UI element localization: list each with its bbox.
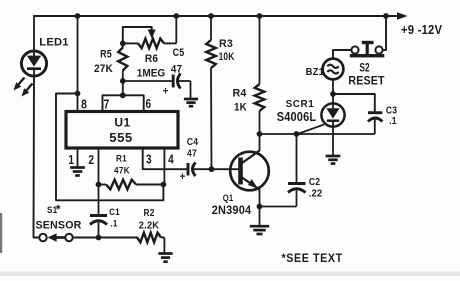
wire Q1 emitter down: [259, 189, 261, 207]
label U1: [114, 116, 130, 130]
wire R6 to rail: [175, 16, 177, 43]
svg-text:R5: R5: [100, 49, 112, 61]
transistor Q1: [230, 151, 269, 191]
label C2: [309, 176, 320, 187]
label C3 value .1: [389, 115, 397, 126]
node gate-C2 junction: [294, 131, 300, 137]
label +9-12V supply: [401, 22, 442, 37]
svg-text:.1: .1: [110, 218, 117, 229]
resistor R2: [137, 233, 164, 243]
label R1: [116, 153, 127, 164]
label 2N3904: [212, 203, 252, 217]
svg-text:Q1: Q1: [223, 192, 234, 203]
label R4 value 1K: [234, 101, 247, 114]
svg-text:R4: R4: [233, 87, 247, 99]
wire SCR1 cathode to ground: [332, 127, 334, 156]
label C5 value 47: [171, 63, 182, 76]
pin 4 label: [168, 152, 174, 166]
svg-text:R2: R2: [144, 207, 155, 218]
wire BZ1 top to S2: [333, 50, 351, 59]
label C3: [386, 105, 397, 116]
svg-text:S2: S2: [359, 62, 369, 75]
LED1 light emission arrows: [14, 78, 33, 97]
svg-text:.1: .1: [389, 115, 397, 126]
SCR1 gate lead: [298, 125, 325, 135]
svg-text:.22: .22: [309, 188, 323, 199]
capacitor C5: [173, 74, 190, 89]
label C4: [187, 136, 199, 147]
wire R5 bottom to pins7-6: [122, 71, 124, 96]
svg-text:1K: 1K: [234, 101, 247, 114]
label C1: [109, 206, 120, 217]
svg-text:2: 2: [88, 153, 94, 167]
wire rail to LED1 anode: [33, 15, 35, 51]
svg-text:RESET: RESET: [348, 75, 384, 88]
wire 555 pin2 down: [98, 148, 100, 215]
svg-text:2N3904: 2N3904: [212, 203, 252, 217]
svg-text:BZ1: BZ1: [306, 67, 325, 79]
svg-text:555: 555: [109, 130, 133, 145]
svg-text:7: 7: [104, 98, 110, 112]
resistor R1: [99, 180, 164, 190]
svg-text:C5: C5: [173, 47, 185, 59]
switch S1 moving arrow: [48, 233, 65, 242]
ground at Q1: [250, 226, 269, 234]
svg-text:C2: C2: [309, 176, 320, 187]
node pins7-6 R5 junction: [120, 92, 126, 98]
+V supply arrow: [397, 12, 408, 20]
label R6: [145, 53, 158, 66]
pin 8 label: [81, 98, 87, 112]
label S4006L: [277, 109, 317, 124]
wire +V loop to pin4 node: [56, 94, 163, 201]
label R3: [219, 38, 233, 50]
wire pin4 lead down: [163, 148, 165, 185]
node R1-pin4 junction: [161, 182, 167, 188]
svg-text:+9 -12V: +9 -12V: [401, 22, 442, 37]
wire emitter to ground: [259, 207, 261, 226]
label Q1: [223, 192, 234, 203]
node rail-R4 junction: [257, 13, 263, 19]
wire 555 pin8 to rail: [77, 16, 79, 112]
wire R4 node to C3 bottom: [260, 133, 375, 135]
label R1 value 47K: [114, 165, 130, 176]
node pin2-R1 junction: [96, 182, 102, 188]
ground at SCR1: [326, 156, 341, 164]
wire S1 to C1/R2 bottom rail: [73, 237, 138, 239]
node rail-pin8 junction: [75, 13, 81, 19]
wire R5 top lead: [122, 43, 124, 47]
IC U1 555 body: [66, 112, 178, 149]
svg-text:LED1: LED1: [39, 37, 68, 49]
label S1 asterisk: [55, 203, 61, 212]
svg-text:2.2K: 2.2K: [139, 220, 159, 231]
R6 wiper loop: [123, 27, 156, 43]
svg-text:R3: R3: [219, 38, 233, 50]
capacitor C4: [188, 163, 212, 177]
node R4-collector junction: [257, 131, 263, 137]
svg-text:∗: ∗: [55, 203, 61, 212]
node rail-R3 junction: [208, 13, 214, 19]
node rail-S2 junction: [383, 13, 389, 19]
svg-text:SENSOR: SENSOR: [35, 219, 81, 231]
switch S1 sensor contact left: [39, 234, 46, 241]
svg-text:S4006L: S4006L: [277, 109, 317, 124]
wire R2 to ground: [163, 238, 165, 254]
capacitor C1: [90, 216, 107, 238]
node emitter-C2 junction: [257, 204, 263, 210]
svg-text:10K: 10K: [219, 51, 235, 63]
label RESET: [348, 75, 384, 88]
label S2: [359, 62, 369, 75]
svg-text:U1: U1: [114, 116, 130, 130]
wire Q1 collector up: [259, 134, 261, 151]
label C1 value .1: [110, 218, 117, 229]
svg-text:C4: C4: [187, 136, 199, 147]
wire LED1 cathode down to S1: [34, 76, 40, 238]
node R5-R6 junction: [120, 41, 126, 47]
pin 7 label: [104, 98, 110, 112]
label BZ1: [306, 67, 325, 79]
label C2 value .22: [309, 188, 323, 199]
label R3 value 10K: [219, 51, 235, 63]
svg-text:4: 4: [168, 152, 174, 166]
ground at pin1: [70, 168, 85, 176]
capacitor C2: [260, 134, 306, 207]
wire C5 to ground: [190, 81, 192, 99]
svg-text:47: 47: [171, 63, 182, 76]
svg-text:C3: C3: [386, 105, 397, 116]
label R4: [233, 87, 247, 99]
LED LED1: [21, 51, 46, 76]
wire 555 pin1 stub: [77, 148, 79, 167]
label R2 value 2.2K: [139, 220, 159, 231]
svg-text:+: +: [180, 172, 186, 184]
label R5: [100, 49, 112, 61]
svg-text:R1: R1: [116, 153, 127, 164]
capacitor C3: [368, 113, 382, 134]
wire R5 node to C5: [123, 80, 173, 82]
ground at C5: [184, 99, 198, 106]
label SCR1: [286, 99, 315, 110]
wire S2 to rail: [383, 16, 386, 50]
resistor R3: [206, 16, 216, 169]
label S1: [47, 204, 57, 215]
thyristor SCR1: [321, 103, 344, 126]
resistor R4: [255, 16, 265, 134]
resistor R5: [118, 48, 127, 71]
svg-text:27K: 27K: [94, 63, 113, 76]
svg-text:47K: 47K: [114, 165, 130, 176]
svg-text:R6: R6: [145, 53, 158, 66]
buzzer BZ1: [323, 59, 344, 80]
svg-text:47: 47: [187, 148, 197, 159]
switch S2 reset: [350, 41, 385, 58]
svg-text:3: 3: [146, 152, 152, 166]
node C4-R3-base junction: [209, 166, 215, 172]
svg-text:+: +: [163, 86, 169, 98]
label LED1: [39, 37, 68, 49]
label C4 value 47: [187, 148, 197, 159]
switch S1 sensor contact right: [65, 234, 72, 241]
svg-text:1MEG: 1MEG: [137, 67, 166, 80]
label SENSOR: [35, 219, 81, 231]
C4 polarity +: [180, 172, 186, 184]
svg-text:1: 1: [68, 153, 74, 167]
label R2: [144, 207, 155, 218]
wire 555 pins 3-4 cell: [143, 148, 188, 169]
note see text: [282, 253, 343, 265]
potentiometer R6: [123, 39, 177, 49]
wire BZ1 bottom to SCR1 anode: [332, 79, 334, 103]
svg-text:8: 8: [81, 98, 87, 112]
label C5: [173, 47, 185, 59]
pin 6 label: [145, 97, 151, 111]
node BZ1-SCR1-C3 junction: [330, 91, 336, 97]
svg-text:C1: C1: [109, 206, 120, 217]
node pin8 wire junction: [75, 91, 81, 97]
svg-text:*SEE TEXT: *SEE TEXT: [282, 253, 343, 265]
svg-text:6: 6: [145, 97, 151, 111]
node R5-C5 junction: [120, 78, 126, 84]
pin 1 label: [68, 153, 74, 167]
node rail-R6 junction: [173, 13, 179, 19]
label 555: [109, 130, 133, 145]
wire 555 pins 7-6 tie loop: [103, 95, 144, 111]
pin 2 label: [88, 153, 94, 167]
wire +V top rail: [34, 15, 398, 17]
C5 polarity +: [163, 86, 169, 98]
wire C4 node to Q1 base: [212, 168, 239, 170]
wire anode node to C3: [333, 94, 375, 113]
ground at R2: [158, 254, 172, 262]
label R6 value 1MEG: [137, 67, 166, 80]
pin 3 label: [146, 152, 152, 166]
label R5 value 27K: [94, 63, 113, 76]
node bottom rail C1 junction: [96, 235, 102, 241]
